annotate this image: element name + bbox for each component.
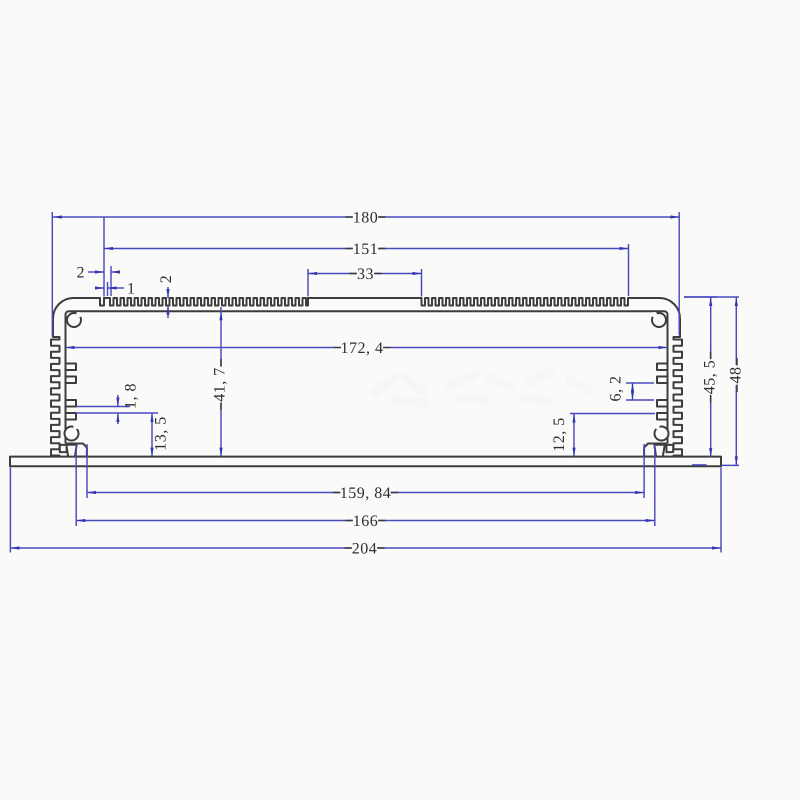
dimension 2 fin height <box>167 287 169 298</box>
svg-text:12, 5: 12, 5 <box>551 417 568 452</box>
right foot with screw slot notch <box>644 444 667 457</box>
dimension 151 <box>104 248 629 250</box>
interior cavity outline <box>66 311 668 443</box>
svg-text:45, 5: 45, 5 <box>701 360 718 395</box>
dimension 41,7 <box>220 307 222 457</box>
foot slot left <box>60 445 67 452</box>
svg-text:204: 204 <box>352 541 378 558</box>
label 204 <box>351 540 377 557</box>
dimension 33 <box>308 273 422 275</box>
svg-text:1, 8: 1, 8 <box>123 383 140 409</box>
label 33 <box>356 265 374 282</box>
left foot with screw slot notch <box>66 444 87 457</box>
label 159,84 <box>340 484 391 501</box>
svg-text:172, 4: 172, 4 <box>341 340 384 357</box>
svg-text:159, 84: 159, 84 <box>340 485 392 502</box>
label 172,4 <box>341 339 384 356</box>
svg-text:180: 180 <box>353 210 379 227</box>
label 180 <box>352 209 378 226</box>
dimension 159,84 <box>87 492 644 494</box>
dimension arrowheads <box>53 215 62 218</box>
dimension 6,2 <box>626 382 654 384</box>
svg-text:166: 166 <box>353 513 379 530</box>
screw boss top-left <box>67 313 81 327</box>
dimension 172,4 <box>66 347 335 349</box>
svg-text:48: 48 <box>728 367 745 384</box>
svg-text:2: 2 <box>77 265 85 282</box>
dimension 45,5 <box>684 296 717 298</box>
screw boss top-right <box>652 313 666 327</box>
faint watermark smudges <box>375 370 588 404</box>
dimension 166 <box>76 520 655 522</box>
screw boss bottom-left <box>65 427 79 441</box>
label 48 <box>729 365 746 385</box>
dimension 204 <box>10 547 721 549</box>
svg-text:1: 1 <box>127 281 135 298</box>
PCB slot fingers left and right walls <box>66 364 77 371</box>
dimension 48 <box>684 296 739 298</box>
label 41,7 <box>213 366 230 403</box>
dimension 2 fin pitch <box>88 271 104 273</box>
dimension 13,5 <box>151 413 153 457</box>
dimension 180 <box>53 216 680 218</box>
svg-text:6, 2: 6, 2 <box>608 376 625 402</box>
label 45,5 <box>702 359 719 396</box>
foot slot right <box>666 445 673 452</box>
svg-text:151: 151 <box>353 241 379 258</box>
dimension 1 fin width <box>96 287 104 289</box>
label 166 <box>352 512 378 529</box>
dimension 1,8 <box>76 406 130 408</box>
svg-text:13, 5: 13, 5 <box>153 416 170 451</box>
bottom base plate <box>10 457 721 467</box>
dimension 12,5 <box>570 413 655 415</box>
profile outer outline with heatsink fins <box>51 298 682 457</box>
svg-text:2: 2 <box>158 275 175 284</box>
screw boss bottom-right <box>655 427 669 441</box>
svg-text:41, 7: 41, 7 <box>212 367 229 402</box>
label 151 <box>352 240 378 257</box>
svg-text:33: 33 <box>357 266 374 283</box>
